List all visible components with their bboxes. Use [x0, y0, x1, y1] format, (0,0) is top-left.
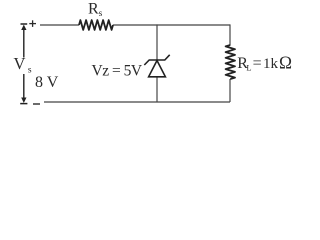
source arrow Vs (double-headed): [20, 24, 27, 104]
wire top rail right segment: [113, 24, 230, 26]
arrow bottom tick: [20, 103, 27, 105]
wire right branch bottom: [229, 79, 231, 102]
wire right branch top: [229, 24, 231, 45]
arrow top head: [21, 25, 26, 30]
wire zener branch top: [156, 24, 158, 60]
wire top rail left segment: [40, 24, 79, 26]
arrow top tick: [21, 23, 28, 25]
zener diode D1 bar with bent ends: [144, 55, 169, 77]
wire zener branch bottom: [156, 77, 158, 102]
wire bottom rail: [44, 101, 230, 103]
arrow bottom head: [21, 98, 26, 104]
svg-text:Vs: Vs: [14, 54, 32, 76]
svg-text:Vz = 5V: Vz = 5V: [92, 63, 143, 80]
arrow shaft lower: [23, 74, 25, 98]
resistor Rs: [79, 20, 113, 30]
arrow shaft upper: [23, 29, 25, 58]
svg-text:8 V: 8 V: [35, 74, 59, 91]
plus sign: [29, 20, 36, 27]
svg-text:Rs: Rs: [88, 1, 103, 20]
zener diode D1 triangle: [149, 61, 166, 77]
svg-text:RL=1kΩ: RL=1kΩ: [237, 52, 292, 72]
resistor RL: [226, 45, 235, 79]
minus sign: [33, 103, 40, 105]
